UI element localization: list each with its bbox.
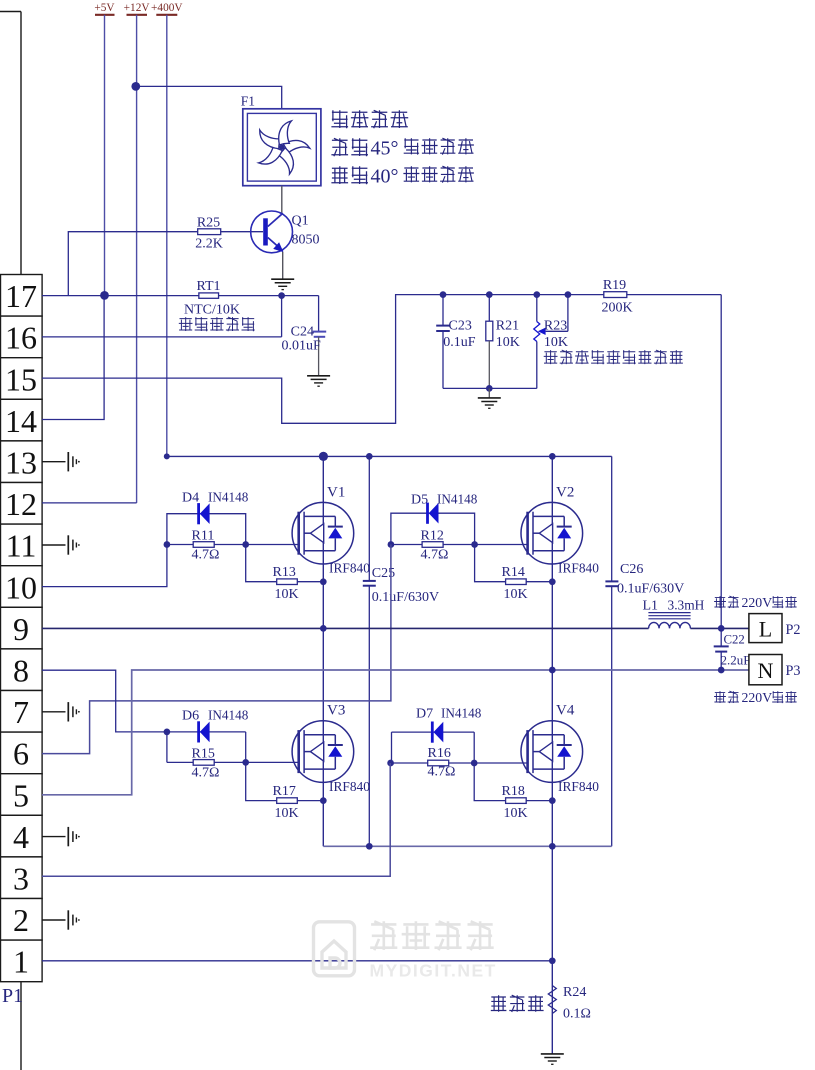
node C23 junction [440,291,447,298]
svg-text:R24: R24 [563,985,586,1000]
svg-text:45°: 45° [371,138,399,160]
svg-text:10K: 10K [544,335,568,350]
svg-text:V2: V2 [556,485,574,501]
svg-text:V3: V3 [327,703,345,719]
svg-text:10K: 10K [496,335,520,350]
wire pin17 row [42,295,199,297]
svg-text:IN4148: IN4148 [437,492,478,507]
svg-text:R15: R15 [192,747,215,762]
resistor R16 [391,732,475,779]
svg-text:10K: 10K [504,587,528,602]
resistor R15 [167,732,246,781]
svg-text:16: 16 [5,320,37,356]
svg-text:L1: L1 [643,598,659,613]
node R23 junction [533,291,540,298]
wire right bridge side [611,456,613,846]
svg-text:4.7Ω: 4.7Ω [428,765,456,780]
node V2 gate left [388,541,395,548]
wire R25 branch [68,232,197,296]
node V4 source [549,797,556,804]
svg-text:NTC/10K: NTC/10K [184,303,240,318]
svg-text:R14: R14 [502,565,525,580]
mosfet V2 [521,485,599,576]
node V2 drain [549,453,556,460]
svg-text:3.3mH: 3.3mH [668,597,705,612]
svg-text:2: 2 [13,902,29,938]
svg-text:R13: R13 [273,565,296,580]
svg-text:P2: P2 [786,622,801,638]
ground pin7 [42,702,80,721]
wire pin1 row [42,960,552,962]
node V2V4 mid [549,667,556,674]
ground pin13 [42,452,80,471]
wire pin15 net [42,295,604,424]
power +5V [94,2,115,295]
capacitor C25 [363,456,439,846]
mosfet V1 [292,485,370,576]
svg-text:4.7Ω: 4.7Ω [421,548,449,563]
port P2 L [749,614,801,643]
svg-text:IRF840: IRF840 [558,561,599,576]
resistor R12 [391,529,475,563]
svg-text:5: 5 [13,777,29,813]
svg-text:10K: 10K [275,806,299,821]
transistor Q1 [251,211,320,253]
svg-text:3: 3 [13,861,29,897]
svg-text:2.2K: 2.2K [195,237,223,252]
svg-text:D6: D6 [182,709,199,724]
wire right leg [551,456,553,1054]
node +5V junction [100,291,109,300]
svg-text:4.7Ω: 4.7Ω [192,548,220,563]
label fan note2 [331,138,474,160]
wire pin8 net [42,670,167,732]
node R23 wiper junction [565,291,572,298]
capacitor C24 [282,296,327,376]
svg-text:14: 14 [5,403,37,439]
label sine out top [714,595,797,610]
svg-text:L: L [759,617,772,642]
resistor R19 [601,278,632,315]
wire V3 gate [246,761,299,763]
wire bottom rail [323,843,611,850]
diode D6 [167,708,249,763]
svg-text:C23: C23 [449,318,472,333]
node V2 source [549,578,556,585]
resistor R14 [475,545,553,603]
node L1 out [718,625,725,632]
potentiometer R23 [534,295,568,389]
svg-text:0.1uF/630V: 0.1uF/630V [617,582,684,597]
node bridge left mid [320,625,327,632]
svg-text:4.7Ω: 4.7Ω [192,766,220,781]
svg-text:220V: 220V [742,690,773,705]
node RT1 junction [278,292,285,299]
svg-text:IN4148: IN4148 [208,490,249,505]
svg-text:1: 1 [13,944,29,980]
port P3 N [749,655,801,685]
label fan note1 [331,110,408,128]
svg-text:V4: V4 [556,703,575,719]
ground R24 [541,1054,564,1064]
wire pin3 net [42,763,390,876]
svg-text:C24: C24 [291,324,314,339]
svg-text:10K: 10K [275,587,299,602]
node C22 bottom [718,667,725,674]
resistor R25 [195,215,223,251]
capacitor C26 [605,562,684,597]
svg-text:R16: R16 [428,746,451,761]
mosfet V4 [521,703,599,795]
fan F1 [241,94,321,186]
svg-text:0.1Ω: 0.1Ω [563,1007,591,1022]
svg-text:+400V: +400V [151,2,183,14]
wire C23-R23 bottom [443,385,537,392]
node R24 top [549,957,556,964]
node V3 source [320,797,327,804]
capacitor C22 [714,628,751,670]
svg-text:IN4148: IN4148 [441,706,482,721]
label output adjust [544,350,683,364]
resistor R13 [246,545,324,603]
node V4 gate left [387,760,394,767]
svg-text:200K: 200K [601,301,632,316]
svg-text:17: 17 [5,278,37,314]
wire pin12 to +12V [42,502,137,504]
node V1 gate right [242,541,249,548]
resistor R21 [486,295,520,389]
wire pin14 to +5V [42,295,104,419]
ground pin2 [42,910,80,929]
mosfet V3 [292,703,370,795]
ground Q1 [271,279,294,289]
svg-text:7: 7 [13,694,29,730]
svg-text:IRF840: IRF840 [558,779,599,794]
svg-text:D5: D5 [411,493,428,508]
diode D5 [391,492,478,545]
svg-text:IN4148: IN4148 [208,708,249,723]
svg-text:R23: R23 [544,318,567,333]
ground R21 [478,388,501,408]
node V3 gate left [164,729,171,736]
svg-text:R12: R12 [421,529,444,544]
wire RT1 to C24 [219,295,319,297]
power +400V [151,2,183,456]
node V3 gate right [242,759,249,766]
svg-text:220V: 220V [742,595,773,610]
svg-text:+5V: +5V [94,2,115,14]
svg-text:+12V: +12V [124,2,151,14]
svg-text:P3: P3 [786,663,801,679]
svg-text:13: 13 [5,445,37,481]
node V1 drain [319,452,328,461]
svg-text:11: 11 [6,528,37,564]
wire Q1 emitter [282,252,284,279]
label fan note3 [331,166,474,188]
node C25 top [366,453,373,460]
resistor R11 [167,529,246,563]
node V1 gate left [164,541,171,548]
svg-text:N: N [758,658,774,683]
node V1 source [320,578,327,585]
svg-text:8050: 8050 [292,233,320,248]
svg-text:6: 6 [13,736,29,772]
node V4 gate right [471,760,478,767]
wire R25 to Q1 base [221,231,263,233]
svg-text:MYDIGIT.NET: MYDIGIT.NET [370,961,497,981]
svg-text:R25: R25 [197,215,220,230]
svg-text:IRF840: IRF840 [329,779,370,794]
svg-text:2.2uF: 2.2uF [721,653,751,668]
svg-text:9: 9 [13,611,29,647]
svg-text:0.1uF: 0.1uF [443,335,476,350]
power +12V [124,2,151,503]
wire pin16 row [42,336,282,338]
wire +12V to fan [131,82,281,109]
wire +400V rail [164,453,612,459]
ground pin4 [42,827,80,846]
ground C24 [307,376,330,386]
svg-text:R19: R19 [603,278,626,293]
label constantan [491,995,544,1012]
wire V4 gate [474,762,527,764]
svg-text:IRF840: IRF840 [329,561,370,576]
svg-text:F1: F1 [241,94,255,109]
watermark [314,921,497,980]
svg-text:8: 8 [13,653,29,689]
svg-text:12: 12 [5,486,37,522]
node R21 junction [486,291,493,298]
svg-text:C26: C26 [620,562,643,577]
wire pin16 vertical [281,296,283,337]
wire L line [42,627,749,629]
wire V1 gate [246,544,299,546]
svg-text:C22: C22 [724,633,745,647]
svg-text:D4: D4 [182,491,199,506]
diode D4 [167,490,249,545]
wire N line [42,670,749,795]
wire pin10 net [42,545,167,587]
svg-text:RT1: RT1 [196,279,220,294]
svg-text:10K: 10K [504,806,528,821]
resistor R17 [246,762,324,821]
wire left leg [322,456,324,846]
svg-text:R17: R17 [273,784,296,799]
svg-text:Q1: Q1 [292,214,309,229]
svg-text:0.01uF: 0.01uF [282,338,322,353]
svg-text:P1: P1 [2,985,23,1007]
svg-text:15: 15 [5,361,37,397]
svg-text:0.1uF/630V: 0.1uF/630V [372,590,439,605]
node V2 gate right [471,541,478,548]
svg-text:D7: D7 [416,707,433,722]
svg-text:4: 4 [13,819,29,855]
svg-text:R21: R21 [496,318,519,333]
wire V2 gate [475,544,528,546]
resistor R24 [548,985,591,1022]
svg-text:10: 10 [5,569,37,605]
ground pin11 [42,535,80,554]
svg-text:40°: 40° [371,166,399,188]
wire R19 to output [626,295,721,629]
label sine out bottom [714,690,797,705]
diode D7 [392,706,482,764]
resistor RT1 [179,279,255,331]
inductor L1 [643,597,705,628]
svg-text:V1: V1 [327,485,345,501]
wire fan-Q1 collector [281,186,283,214]
svg-text:R11: R11 [192,529,215,544]
connector P1 [0,12,42,1070]
capacitor C23 [436,295,476,389]
svg-text:R18: R18 [502,784,525,799]
wire pin6 net [42,545,391,754]
resistor R18 [474,763,552,821]
